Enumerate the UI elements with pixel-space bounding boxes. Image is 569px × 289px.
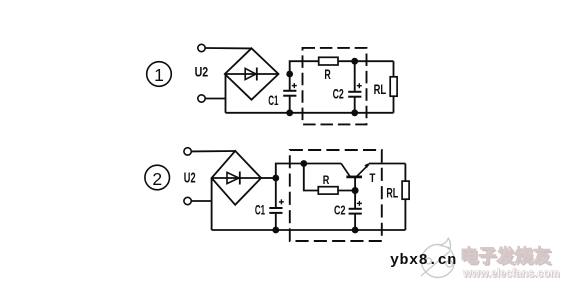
transistor T (circuit 2) [341, 163, 369, 191]
svg-text:1: 1 [154, 65, 164, 85]
svg-text:RL: RL [386, 186, 398, 201]
load resistor RL (circuit 1) [390, 61, 397, 113]
svg-text:2: 2 [152, 169, 162, 189]
node dot (R tap) [300, 160, 307, 167]
node B1 (bridge 2 output) [272, 175, 279, 182]
bridge rectifier (circuit 2) [212, 151, 262, 205]
wire [205, 47, 251, 49]
wire (bottom rail circuit 2) [212, 229, 406, 231]
wire [211, 178, 213, 230]
wire [191, 200, 211, 202]
svg-text:C2: C2 [333, 85, 344, 101]
terminal (circuit 1 AC input bottom) [198, 95, 205, 102]
node A1 (bridge output) [286, 71, 293, 78]
svg-text:C1: C1 [268, 92, 278, 108]
watermark logo circle [421, 238, 455, 277]
diode (inside bridge 1) [225, 68, 279, 81]
wire [338, 190, 355, 192]
wire [205, 98, 225, 100]
svg-text:U2: U2 [184, 170, 196, 186]
wire [290, 61, 319, 74]
svg-text:www.elecfans.com: www.elecfans.com [462, 266, 559, 280]
terminal (circuit 2 AC input top) [184, 148, 191, 155]
capacitor C2 (circuit 1) [348, 61, 362, 113]
node dot (C1 bottom) [286, 109, 293, 116]
svg-text:RL: RL [374, 81, 387, 97]
wire [191, 150, 235, 152]
svg-text:C2: C2 [334, 203, 345, 218]
circle label 2 [145, 165, 170, 190]
svg-text:T: T [369, 173, 375, 185]
node dot (C2 bottom) [351, 109, 358, 116]
node dot (C1 circuit2 bottom) [272, 227, 279, 234]
wire [338, 60, 394, 62]
svg-text:ybx8.cn: ybx8.cn [390, 252, 457, 269]
svg-text:U2: U2 [195, 64, 209, 80]
capacitor C2 (circuit 2) [349, 191, 362, 231]
bridge rectifier (circuit 1) [225, 48, 279, 99]
wire [304, 164, 319, 191]
svg-text:R: R [323, 173, 330, 187]
diode (inside bridge 2) [212, 172, 262, 185]
node dot (C2 top) [351, 58, 358, 65]
dashed filter box (circuit 1) [303, 48, 367, 125]
svg-text:C1: C1 [255, 201, 265, 217]
capacitor C1 (circuit 2) [269, 178, 284, 230]
dashed filter box (circuit 2) [290, 150, 382, 241]
svg-text:电子发烧友: 电子发烧友 [460, 245, 551, 266]
circle label 1 [147, 62, 172, 87]
wire (bottom rail circuit 1) [226, 112, 394, 114]
wire [276, 164, 341, 179]
wire [261, 177, 276, 179]
terminal (circuit 1 AC input top) [198, 44, 205, 51]
resistor R (circuit 2) [318, 187, 338, 194]
load resistor RL (circuit 2) [402, 164, 409, 231]
resistor R (circuit 1) [319, 57, 338, 65]
node dot (base node) [352, 187, 359, 194]
wire [225, 74, 227, 113]
wire [369, 163, 406, 165]
capacitor C1 (circuit 1) [283, 74, 297, 113]
svg-text:R: R [324, 66, 330, 82]
node dot (C2 circuit2 bottom) [352, 227, 359, 234]
terminal (circuit 2 AC input bottom) [184, 197, 191, 204]
